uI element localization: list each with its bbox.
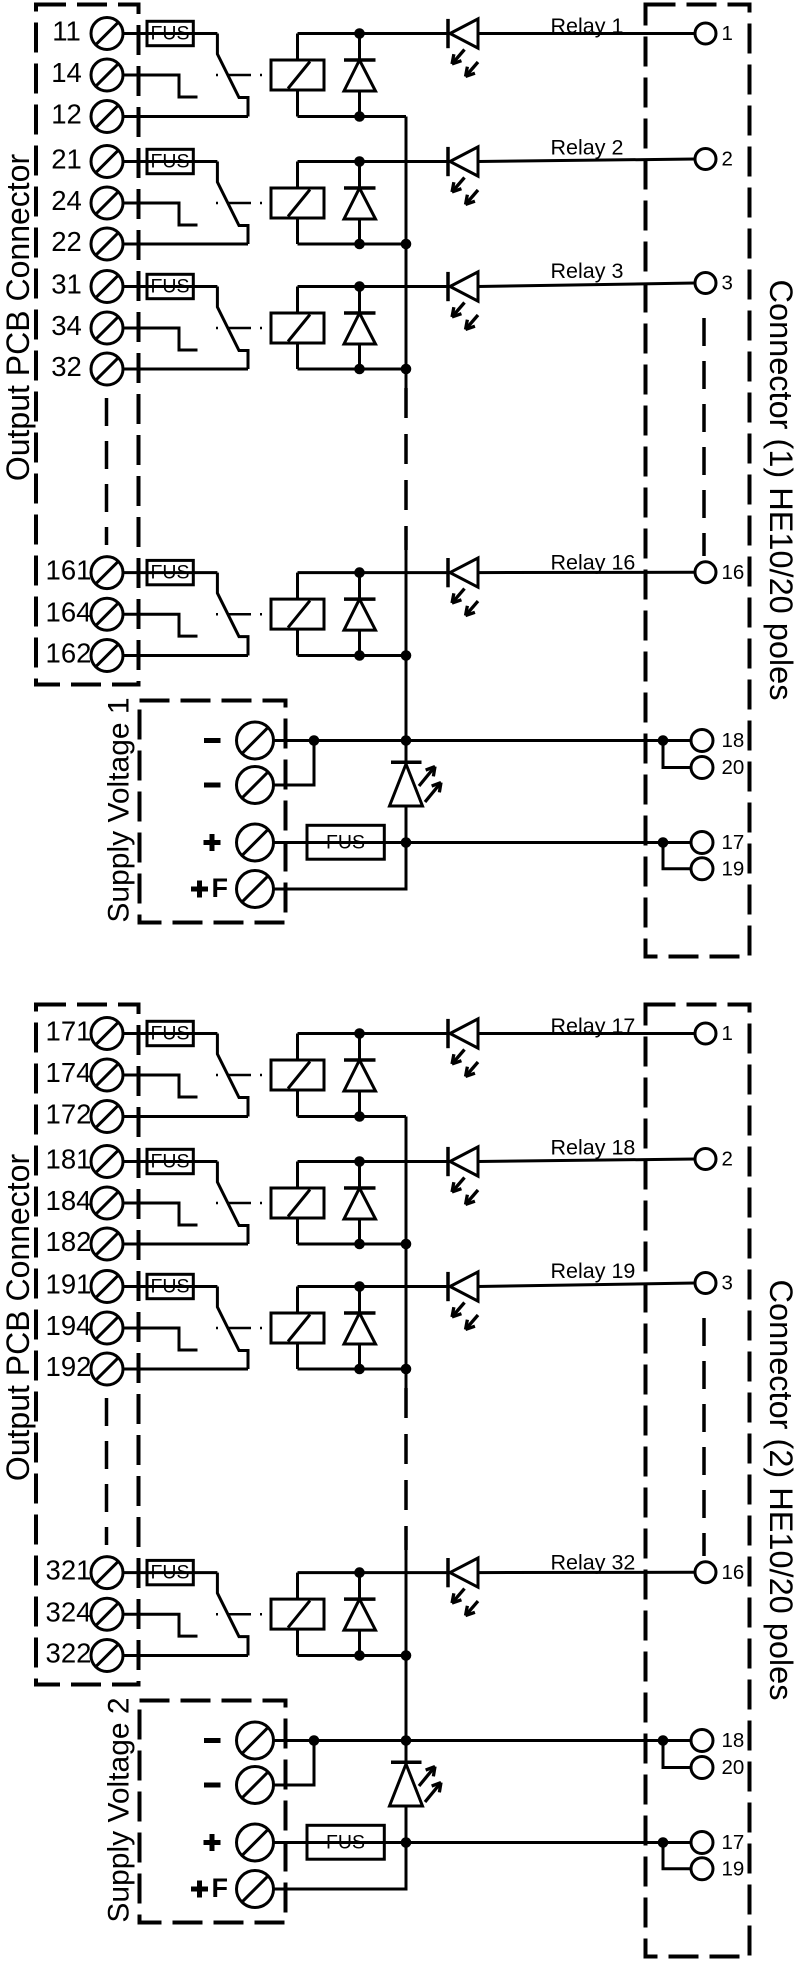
pin 16 — [695, 1561, 744, 1584]
svg-text:FUS: FUS — [151, 151, 190, 173]
svg-text:1: 1 — [722, 22, 733, 45]
wire 11 to fuse and switch common — [123, 32, 217, 35]
terminal plus F — [191, 871, 274, 908]
terminal 14 — [51, 57, 123, 91]
flyback diode (Relay 3) — [344, 287, 376, 370]
fuse FUS (supply) — [307, 825, 384, 859]
node diode bottom junction (Relay 19) — [354, 1364, 365, 1375]
relay coil (Relay 16) — [271, 599, 324, 629]
node diode top junction (Relay 18) — [354, 1156, 365, 1167]
mechanical link (Relay 3) — [216, 327, 271, 330]
pin 2 — [695, 1148, 733, 1171]
svg-text:24: 24 — [51, 185, 82, 216]
flyback diode (Relay 18) — [344, 1162, 376, 1245]
terminal 182 — [46, 1226, 123, 1260]
wire coil bottom to bus (Relay 18) — [298, 1218, 407, 1244]
label Relay 19 — [551, 1259, 636, 1283]
svg-text:FUS: FUS — [151, 1151, 190, 1173]
Output PCB Connector box — [36, 1005, 139, 1685]
terminal column continuation dashes — [105, 1398, 109, 1545]
wire minus rail to pin 18 — [274, 739, 696, 742]
pin 20 — [691, 1756, 744, 1779]
svg-text:20: 20 — [722, 1756, 745, 1779]
fuse FUS (Relay 2) — [147, 149, 193, 173]
LED (Relay 2) — [448, 147, 478, 205]
node minus pins junction — [658, 735, 669, 746]
fuse FUS (Relay 18) — [147, 1149, 193, 1173]
node bus junction (Relay 2) — [401, 239, 412, 250]
svg-text:FUS: FUS — [151, 1562, 190, 1584]
terminal minus B — [204, 1767, 274, 1804]
wire 191 to fuse and switch common — [123, 1285, 217, 1288]
wire coil top to LED (Relay 3) — [298, 287, 450, 314]
node minus junction — [309, 735, 320, 746]
wire plus F — [274, 843, 407, 890]
label Supply Voltage 1 — [103, 697, 136, 922]
relay coil (Relay 32) — [271, 1599, 324, 1629]
svg-text:FUS: FUS — [326, 1832, 365, 1854]
node diode top junction (Relay 2) — [354, 156, 365, 167]
pin 1 — [695, 1022, 733, 1045]
wire plus rail to pin 17 — [274, 841, 696, 844]
svg-text:22: 22 — [51, 226, 82, 257]
node plus pins junction — [658, 1837, 669, 1848]
svg-text:FUS: FUS — [151, 1276, 190, 1298]
mechanical link (Relay 18) — [216, 1202, 271, 1205]
terminal 324 — [46, 1596, 123, 1630]
fuse FUS (Relay 19) — [147, 1274, 193, 1298]
terminal 161 — [46, 555, 123, 589]
svg-text:18: 18 — [722, 729, 745, 752]
terminal 172 — [46, 1099, 123, 1133]
wire to pin 19 — [663, 843, 691, 869]
node diode top junction (Relay 16) — [354, 567, 365, 578]
wire coil top to LED (Relay 19) — [298, 1287, 450, 1314]
pin 20 — [691, 756, 744, 779]
wire 322 to switch — [123, 1654, 248, 1657]
svg-text:FUS: FUS — [151, 23, 190, 45]
fuse FUS (Relay 17) — [147, 1021, 193, 1045]
pin 3 — [695, 272, 733, 295]
wire LED to pin 3 (Relay 19) — [478, 1283, 695, 1287]
svg-text:34: 34 — [51, 310, 82, 341]
wire 32 to switch — [123, 368, 248, 371]
svg-text:2: 2 — [722, 148, 733, 171]
pin 17 — [691, 1831, 744, 1854]
label Relay 2 — [551, 135, 624, 159]
label Connector (2) HE10/20 poles — [763, 1280, 799, 1701]
wire 182 to switch — [123, 1243, 248, 1246]
wire LED to pin 1 (Relay 1) — [478, 32, 695, 35]
switch contact (Relay 18) — [217, 1162, 248, 1245]
svg-text:182: 182 — [46, 1226, 92, 1257]
node diode bottom junction (Relay 3) — [354, 364, 365, 375]
node diode bottom junction (Relay 2) — [354, 239, 365, 250]
relay coil (Relay 2) — [271, 188, 324, 218]
wire 192 to switch — [123, 1368, 248, 1371]
node minus pins junction — [658, 1735, 669, 1746]
LED (Relay 32) — [448, 1558, 478, 1616]
terminal 184 — [46, 1185, 123, 1219]
wire 12 to switch — [123, 115, 248, 118]
terminal minus A — [204, 1722, 274, 1759]
fuse FUS (Relay 3) — [147, 274, 193, 298]
terminal 34 — [51, 310, 123, 344]
svg-text:322: 322 — [46, 1638, 92, 1669]
node bus junction (Relay 3) — [401, 364, 412, 375]
svg-text:174: 174 — [46, 1057, 92, 1088]
node diode bottom junction (Relay 16) — [354, 650, 365, 661]
node diode top junction (Relay 32) — [354, 1567, 365, 1578]
wire LED to pin 2 (Relay 2) — [478, 159, 695, 162]
node plus pins junction — [658, 837, 669, 848]
switch contact (Relay 1) — [217, 34, 248, 117]
pin 3 — [695, 1272, 733, 1295]
svg-text:3: 3 — [722, 1272, 733, 1295]
pin 16 — [695, 561, 744, 584]
relay coil (Relay 18) — [271, 1188, 324, 1218]
svg-text:FUS: FUS — [151, 1023, 190, 1045]
svg-text:17: 17 — [722, 831, 745, 854]
wire 181 to fuse and switch common — [123, 1160, 217, 1163]
wire 161 to fuse and switch common — [123, 571, 217, 574]
LED (Relay 1) — [448, 19, 478, 77]
fuse FUS (Relay 32) — [147, 1560, 193, 1584]
wire minus rail to pin 18 — [274, 1739, 696, 1742]
node diode top junction (Relay 19) — [354, 1281, 365, 1292]
wire supply bus lower — [405, 1550, 408, 1741]
wire 162 to switch — [123, 654, 248, 657]
wire 194 NO contact — [123, 1328, 198, 1350]
Supply Voltage 1 box — [140, 701, 286, 923]
terminal 192 — [46, 1351, 123, 1385]
wire coil bottom to bus (Relay 19) — [298, 1343, 407, 1369]
wire to pin 19 — [663, 1843, 691, 1869]
svg-text:2: 2 — [722, 1148, 733, 1171]
terminal minus B — [204, 767, 274, 804]
wire LED to pin 16 (Relay 16) — [478, 571, 695, 574]
wire LED to pin 1 (Relay 17) — [478, 1032, 695, 1035]
wire coil bottom to bus (Relay 2) — [298, 218, 407, 244]
LED (Relay 16) — [448, 558, 478, 616]
svg-text:Connector (2) HE10/20 poles: Connector (2) HE10/20 poles — [763, 1280, 799, 1701]
mechanical link (Relay 2) — [216, 202, 271, 205]
svg-text:Relay 19: Relay 19 — [551, 1259, 636, 1283]
svg-text:Supply Voltage 1: Supply Voltage 1 — [103, 697, 136, 922]
svg-text:FUS: FUS — [326, 832, 365, 854]
wire plus F — [274, 1843, 407, 1890]
wire supply bus continuation dashes — [404, 1388, 408, 1550]
wire supply bus continuation dashes — [404, 388, 408, 550]
node diode top junction (Relay 1) — [354, 28, 365, 39]
terminal 12 — [51, 99, 123, 133]
switch contact (Relay 2) — [217, 162, 248, 245]
wire minus B link — [274, 741, 315, 786]
terminal plus F — [191, 1871, 274, 1908]
wire 171 to fuse and switch common — [123, 1032, 217, 1035]
relay coil (Relay 3) — [271, 313, 324, 343]
wire 34 NO contact — [123, 328, 198, 350]
svg-text:Relay 18: Relay 18 — [551, 1135, 636, 1159]
pin 17 — [691, 831, 744, 854]
svg-text:19: 19 — [722, 1857, 745, 1880]
terminal plus — [204, 1824, 274, 1861]
wire coil bottom to bus (Relay 3) — [298, 343, 407, 369]
wire coil top to LED (Relay 17) — [298, 1034, 450, 1061]
svg-text:Relay 3: Relay 3 — [551, 259, 624, 283]
svg-text:Output PCB Connector: Output PCB Connector — [0, 154, 36, 482]
svg-text:192: 192 — [46, 1351, 92, 1382]
terminal 11 — [52, 16, 123, 50]
fuse FUS (Relay 1) — [147, 21, 193, 45]
switch contact (Relay 17) — [217, 1034, 248, 1117]
svg-text:194: 194 — [46, 1310, 92, 1341]
pin column continuation dashes — [702, 318, 706, 556]
svg-text:184: 184 — [46, 1185, 92, 1216]
svg-text:19: 19 — [722, 857, 745, 880]
svg-text:321: 321 — [46, 1555, 92, 1586]
node bus junction (Relay 18) — [401, 1239, 412, 1250]
terminal 181 — [46, 1144, 123, 1178]
svg-text:11: 11 — [52, 16, 81, 47]
terminal 191 — [46, 1269, 123, 1303]
svg-text:162: 162 — [46, 638, 92, 669]
terminal 322 — [46, 1638, 123, 1672]
terminal 321 — [46, 1555, 123, 1589]
wire coil bottom to bus (Relay 17) — [298, 1090, 407, 1117]
label Output PCB Connector — [0, 1154, 36, 1482]
svg-text:F: F — [212, 1873, 229, 1903]
wire 21 to fuse and switch common — [123, 160, 217, 163]
svg-text:18: 18 — [722, 1729, 745, 1752]
pin 2 — [695, 148, 733, 171]
terminal 162 — [46, 638, 123, 672]
node minus junction — [309, 1735, 320, 1746]
terminal column continuation dashes — [105, 398, 109, 545]
svg-text:Connector (1) HE10/20 poles: Connector (1) HE10/20 poles — [763, 280, 799, 701]
mechanical link (Relay 32) — [216, 1613, 271, 1616]
wire coil bottom to bus (Relay 1) — [298, 90, 407, 117]
svg-text:Relay 17: Relay 17 — [551, 1014, 636, 1038]
label Relay 18 — [551, 1135, 636, 1159]
wire 321 to fuse and switch common — [123, 1571, 217, 1574]
svg-text:191: 191 — [46, 1269, 92, 1300]
svg-text:31: 31 — [51, 269, 82, 300]
wire supply bus lower — [405, 550, 408, 741]
svg-text:181: 181 — [46, 1144, 92, 1175]
supply LED — [390, 741, 442, 843]
svg-text:324: 324 — [46, 1596, 92, 1627]
svg-text:32: 32 — [51, 351, 82, 382]
label Output PCB Connector — [0, 154, 36, 482]
terminal minus A — [204, 722, 274, 759]
node diode bottom junction (Relay 32) — [354, 1650, 365, 1661]
LED (Relay 3) — [448, 272, 478, 330]
svg-text:3: 3 — [722, 272, 733, 295]
node diode bottom junction (Relay 1) — [354, 111, 365, 122]
wire minus B link — [274, 1741, 315, 1786]
wire LED to pin 3 (Relay 3) — [478, 283, 695, 287]
svg-text:16: 16 — [722, 1561, 745, 1584]
pin 18 — [691, 729, 744, 752]
fuse FUS (supply) — [307, 1825, 384, 1859]
node minus bus junction — [401, 1735, 412, 1746]
pin 18 — [691, 1729, 744, 1752]
svg-text:14: 14 — [51, 57, 82, 88]
connector box Connector (2) HE10/20 poles — [646, 1005, 750, 1957]
wire 22 to switch — [123, 243, 248, 246]
svg-text:1: 1 — [722, 1022, 733, 1045]
LED (Relay 17) — [448, 1019, 478, 1077]
svg-text:Relay 2: Relay 2 — [551, 135, 624, 159]
node diode top junction (Relay 17) — [354, 1028, 365, 1039]
wire supply bus upper — [405, 1117, 408, 1389]
label Connector (1) HE10/20 poles — [763, 280, 799, 701]
wire 184 NO contact — [123, 1203, 198, 1225]
pin 19 — [691, 857, 744, 880]
node minus bus junction — [401, 735, 412, 746]
mechanical link (Relay 16) — [216, 613, 271, 616]
pin column continuation dashes — [702, 1318, 706, 1556]
wire to pin 20 — [663, 741, 691, 768]
wire 174 NO contact — [123, 1075, 198, 1097]
wire 24 NO contact — [123, 203, 198, 225]
svg-text:161: 161 — [46, 555, 92, 586]
wire 164 NO contact — [123, 614, 198, 636]
flyback diode (Relay 1) — [344, 34, 376, 117]
terminal 31 — [51, 269, 123, 303]
terminal 164 — [46, 596, 123, 630]
terminal plus — [204, 824, 274, 861]
label Relay 3 — [551, 259, 624, 283]
flyback diode (Relay 32) — [344, 1573, 376, 1656]
switch contact (Relay 32) — [217, 1573, 248, 1656]
terminal 22 — [51, 226, 123, 260]
svg-text:FUS: FUS — [151, 276, 190, 298]
flyback diode (Relay 17) — [344, 1034, 376, 1117]
wire coil bottom to bus (Relay 32) — [298, 1629, 407, 1655]
svg-text:164: 164 — [46, 596, 92, 627]
label Relay 17 — [551, 1014, 636, 1038]
terminal 174 — [46, 1057, 123, 1091]
node plus bus junction — [401, 837, 412, 848]
svg-text:FUS: FUS — [151, 562, 190, 584]
flyback diode (Relay 16) — [344, 573, 376, 656]
switch contact (Relay 3) — [217, 287, 248, 370]
svg-text:Relay 16: Relay 16 — [551, 550, 636, 574]
LED (Relay 19) — [448, 1272, 478, 1330]
node plus bus junction — [401, 1837, 412, 1848]
wire plus rail to pin 17 — [274, 1841, 696, 1844]
svg-text:20: 20 — [722, 756, 745, 779]
relay coil (Relay 1) — [271, 60, 324, 90]
wire 324 NO contact — [123, 1614, 198, 1636]
label Relay 32 — [551, 1550, 636, 1574]
fuse FUS (Relay 16) — [147, 560, 193, 584]
svg-text:Supply Voltage 2: Supply Voltage 2 — [103, 1697, 136, 1922]
node diode bottom junction (Relay 18) — [354, 1239, 365, 1250]
wire supply bus upper — [405, 117, 408, 389]
LED (Relay 18) — [448, 1147, 478, 1205]
wire coil bottom to bus (Relay 16) — [298, 629, 407, 655]
svg-text:21: 21 — [51, 144, 82, 175]
mechanical link (Relay 19) — [216, 1327, 271, 1330]
label Relay 1 — [551, 14, 624, 38]
wire 14 NO contact — [123, 75, 198, 97]
Output PCB Connector box — [36, 5, 139, 685]
flyback diode (Relay 19) — [344, 1287, 376, 1370]
svg-text:Relay 32: Relay 32 — [551, 1550, 636, 1574]
terminal 194 — [46, 1310, 123, 1344]
relay coil (Relay 19) — [271, 1313, 324, 1343]
node bus junction (Relay 19) — [401, 1364, 412, 1375]
svg-text:F: F — [212, 873, 229, 903]
node bus junction (Relay 16) — [401, 650, 412, 661]
wire LED to pin 2 (Relay 18) — [478, 1159, 695, 1162]
mechanical link (Relay 1) — [216, 74, 271, 77]
terminal 171 — [46, 1016, 123, 1050]
mechanical link (Relay 17) — [216, 1074, 271, 1077]
flyback diode (Relay 2) — [344, 162, 376, 245]
wire coil top to LED (Relay 18) — [298, 1162, 450, 1189]
connector box Connector (1) HE10/20 poles — [646, 5, 750, 957]
Supply Voltage 2 box — [140, 1701, 286, 1923]
label Relay 16 — [551, 550, 636, 574]
svg-text:Output PCB Connector: Output PCB Connector — [0, 1154, 36, 1482]
wire LED to pin 16 (Relay 32) — [478, 1571, 695, 1574]
supply LED — [390, 1741, 442, 1843]
wire 172 to switch — [123, 1115, 248, 1118]
switch contact (Relay 19) — [217, 1287, 248, 1370]
svg-text:171: 171 — [46, 1016, 92, 1047]
svg-text:Relay 1: Relay 1 — [551, 14, 624, 38]
wire coil top to LED (Relay 1) — [298, 34, 450, 61]
wire coil top to LED (Relay 16) — [298, 573, 450, 600]
svg-text:16: 16 — [722, 561, 745, 584]
terminal 32 — [51, 351, 123, 385]
relay coil (Relay 17) — [271, 1060, 324, 1090]
svg-text:12: 12 — [51, 99, 82, 130]
switch contact (Relay 16) — [217, 573, 248, 656]
terminal 24 — [51, 185, 123, 219]
wire 31 to fuse and switch common — [123, 285, 217, 288]
wire to pin 20 — [663, 1741, 691, 1768]
svg-text:172: 172 — [46, 1099, 92, 1130]
svg-text:17: 17 — [722, 1831, 745, 1854]
pin 19 — [691, 1857, 744, 1880]
terminal 21 — [51, 144, 123, 178]
node diode top junction (Relay 3) — [354, 281, 365, 292]
pin 1 — [695, 22, 733, 45]
wire coil top to LED (Relay 2) — [298, 162, 450, 189]
label Supply Voltage 2 — [103, 1697, 136, 1922]
node diode bottom junction (Relay 17) — [354, 1111, 365, 1122]
node bus junction (Relay 32) — [401, 1650, 412, 1661]
wire coil top to LED (Relay 32) — [298, 1573, 450, 1600]
